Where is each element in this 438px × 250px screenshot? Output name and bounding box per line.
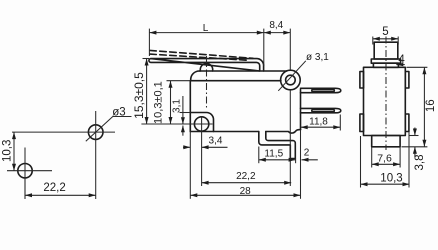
svg-text:28: 28 <box>240 186 252 197</box>
svg-text:11,8: 11,8 <box>309 116 328 127</box>
svg-text:7,6: 7,6 <box>377 153 392 165</box>
svg-text:5: 5 <box>382 26 388 38</box>
svg-text:11,5: 11,5 <box>264 149 283 160</box>
svg-text:8,4: 8,4 <box>269 20 283 31</box>
svg-text:L: L <box>203 23 209 34</box>
svg-text:ø 3,1: ø 3,1 <box>306 52 329 63</box>
svg-text:16: 16 <box>425 99 437 112</box>
svg-text:10,3: 10,3 <box>1 140 13 162</box>
svg-text:10,3: 10,3 <box>380 172 402 184</box>
svg-text:3,8: 3,8 <box>414 155 426 171</box>
svg-text:3,4: 3,4 <box>209 136 223 147</box>
svg-text:2: 2 <box>304 147 310 158</box>
svg-text:3,1: 3,1 <box>171 99 182 113</box>
svg-text:10,3±0,1: 10,3±0,1 <box>153 81 165 124</box>
svg-text:22,2: 22,2 <box>236 171 256 182</box>
svg-text:22,2: 22,2 <box>43 182 65 194</box>
svg-text:15,3±0,5: 15,3±0,5 <box>132 72 146 119</box>
